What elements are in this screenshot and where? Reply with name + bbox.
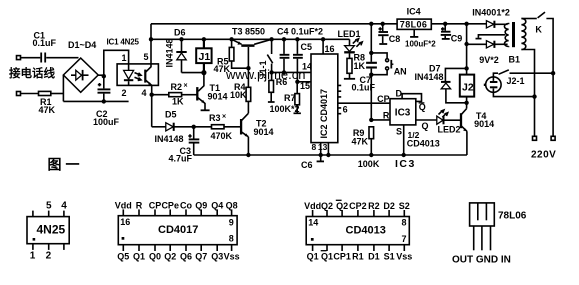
transistor T4 bbox=[460, 113, 462, 128]
svg-text:R: R bbox=[136, 201, 143, 211]
svg-text:100uF*2: 100uF*2 bbox=[405, 39, 436, 48]
svg-text:S1: S1 bbox=[384, 252, 395, 262]
resistor R9 bbox=[369, 118, 373, 122]
svg-text:×: × bbox=[184, 83, 188, 90]
wire bbox=[46, 57, 78, 59]
svg-text:2: 2 bbox=[122, 88, 127, 98]
pin ticks right edge bbox=[338, 85, 341, 113]
svg-text:Q2: Q2 bbox=[336, 201, 348, 211]
svg-text:Q6: Q6 bbox=[180, 252, 192, 262]
svg-text:J2: J2 bbox=[462, 82, 474, 94]
node rail2-left bbox=[149, 37, 153, 41]
svg-text:220V: 220V bbox=[531, 150, 556, 161]
svg-text:5: 5 bbox=[46, 201, 52, 212]
LED inside 4N25 bbox=[128, 64, 130, 71]
IC package CD4013 bbox=[306, 217, 409, 245]
capacitor C3 bbox=[193, 127, 195, 139]
svg-text:Q2: Q2 bbox=[321, 201, 333, 211]
svg-text:IC3: IC3 bbox=[395, 108, 411, 119]
capacitor C2 bbox=[103, 76, 105, 88]
svg-text:8: 8 bbox=[312, 142, 317, 152]
svg-text:7: 7 bbox=[401, 234, 406, 244]
svg-text:IC3: IC3 bbox=[395, 158, 416, 170]
svg-text:图一: 图一 bbox=[48, 157, 84, 173]
svg-text:9014: 9014 bbox=[208, 92, 228, 102]
svg-text:C9: C9 bbox=[451, 34, 463, 44]
buzzer HTD bbox=[486, 77, 501, 92]
diode IN4001 lower bbox=[467, 43, 487, 45]
svg-text:Vdd: Vdd bbox=[115, 201, 132, 211]
svg-text:1K: 1K bbox=[354, 61, 366, 71]
svg-text:78L06: 78L06 bbox=[498, 211, 527, 222]
svg-text:4N25: 4N25 bbox=[37, 222, 66, 236]
svg-text:100K: 100K bbox=[358, 159, 380, 169]
svg-text:R6: R6 bbox=[276, 77, 288, 87]
svg-text:8: 8 bbox=[401, 218, 406, 228]
IC U-IC2 CD4017 bbox=[311, 54, 338, 143]
wire S to ground bbox=[403, 125, 405, 155]
svg-text:C5: C5 bbox=[301, 42, 313, 52]
resistor R7 bbox=[296, 82, 298, 94]
svg-text:Vdd: Vdd bbox=[304, 201, 321, 211]
svg-text:16: 16 bbox=[120, 217, 130, 227]
svg-text:Q2: Q2 bbox=[164, 252, 176, 262]
svg-text:R1: R1 bbox=[352, 252, 364, 262]
svg-text:100uF: 100uF bbox=[93, 117, 120, 127]
svg-text:CP: CP bbox=[149, 201, 162, 211]
pin 8 and 13 stubs bbox=[320, 143, 322, 155]
resistor R8 bbox=[349, 53, 351, 58]
LED2 bbox=[437, 116, 443, 124]
svg-text:J2-1: J2-1 bbox=[507, 76, 525, 86]
svg-text:C4 0.1uF*2: C4 0.1uF*2 bbox=[277, 27, 323, 37]
svg-text:AN: AN bbox=[394, 67, 407, 77]
svg-text:Q9: Q9 bbox=[195, 201, 207, 211]
svg-text:B1: B1 bbox=[509, 55, 521, 65]
svg-text:Q: Q bbox=[422, 121, 429, 131]
svg-text:J1: J1 bbox=[199, 51, 211, 63]
svg-text:LED1: LED1 bbox=[338, 29, 361, 39]
svg-text:4: 4 bbox=[61, 201, 67, 212]
transformer B1 primary winding bbox=[504, 24, 508, 47]
relay contact K bbox=[521, 18, 536, 20]
svg-text:Q1: Q1 bbox=[133, 252, 145, 262]
svg-text:5: 5 bbox=[144, 52, 149, 62]
relay coil J2 bbox=[460, 75, 474, 97]
IC package 78L06 TO-92 bbox=[470, 203, 495, 226]
wire D to Qbar loop bbox=[402, 94, 421, 102]
svg-text:47K: 47K bbox=[39, 105, 56, 115]
capacitor C6 ground stub bbox=[320, 155, 322, 161]
wire pin14 line bbox=[272, 71, 311, 73]
svg-text:IN4148: IN4148 bbox=[165, 38, 175, 67]
svg-text:R2: R2 bbox=[368, 201, 380, 211]
svg-text:1: 1 bbox=[122, 53, 127, 63]
wire pin1 route bbox=[104, 50, 129, 76]
IC package CD4017 bbox=[118, 216, 237, 245]
wire Q output bbox=[416, 119, 437, 121]
svg-text:9014: 9014 bbox=[254, 127, 274, 137]
capacitor C1 bbox=[40, 53, 42, 63]
svg-text:CD4013: CD4013 bbox=[346, 224, 386, 236]
svg-text:Q4: Q4 bbox=[211, 201, 223, 211]
svg-text:CPe: CPe bbox=[161, 201, 179, 211]
svg-text:4: 4 bbox=[142, 88, 147, 98]
resistor R6 bbox=[269, 80, 274, 92]
svg-text:CP: CP bbox=[377, 94, 390, 104]
svg-text:R3: R3 bbox=[209, 113, 221, 123]
wire pin6 CP line bbox=[338, 102, 390, 104]
resistor R1 bbox=[39, 91, 51, 95]
svg-text:9V*2: 9V*2 bbox=[479, 55, 499, 65]
wire pin5 vertical bbox=[150, 24, 152, 64]
svg-text:CP1: CP1 bbox=[333, 252, 351, 262]
wire R line bbox=[371, 119, 390, 121]
svg-text:13: 13 bbox=[318, 142, 328, 152]
wire bbox=[21, 93, 39, 95]
svg-text:14: 14 bbox=[308, 218, 318, 228]
wire pin15 line bbox=[297, 81, 311, 83]
wire pin16 bbox=[322, 39, 324, 54]
svg-text:6: 6 bbox=[343, 105, 348, 115]
wire rail1 right part bbox=[431, 23, 486, 25]
wire J1 to T1 collector bbox=[198, 73, 204, 92]
svg-text:Vss: Vss bbox=[396, 252, 412, 262]
svg-text:Q1: Q1 bbox=[307, 252, 319, 262]
svg-text:IC2 CD4017: IC2 CD4017 bbox=[319, 89, 329, 139]
svg-text:D2: D2 bbox=[383, 201, 395, 211]
svg-text:C6: C6 bbox=[301, 160, 313, 170]
wire rail1 top supply bbox=[151, 23, 397, 25]
capacitor C5 bbox=[296, 39, 298, 54]
svg-text:Q5: Q5 bbox=[117, 252, 129, 262]
wire rail2 bbox=[151, 38, 350, 40]
svg-text:78L06: 78L06 bbox=[400, 19, 428, 29]
svg-text:0.1uF: 0.1uF bbox=[33, 38, 57, 48]
resistor R2 bbox=[152, 94, 169, 96]
svg-text:Co: Co bbox=[180, 201, 192, 211]
wire bottom to C2 and pin2 bbox=[63, 100, 128, 102]
svg-text:CD4017: CD4017 bbox=[158, 224, 198, 236]
svg-text:IC4: IC4 bbox=[407, 7, 421, 17]
svg-text:D: D bbox=[396, 88, 403, 98]
terminal 220V left bbox=[533, 136, 537, 140]
capacitor C7 bbox=[370, 24, 372, 62]
node T3 base / R5 bbox=[246, 66, 250, 70]
bridge rectifier D1~D4 bbox=[63, 58, 98, 92]
svg-text:J1-1: J1-1 bbox=[258, 60, 268, 78]
svg-text:CP2: CP2 bbox=[349, 201, 367, 211]
svg-text:10K: 10K bbox=[230, 90, 247, 100]
IC package 4N25 bbox=[27, 217, 69, 244]
svg-text:470K: 470K bbox=[211, 131, 233, 141]
svg-text:1K: 1K bbox=[172, 97, 184, 107]
relay contact J2-1 and buzzer bbox=[493, 73, 498, 77]
svg-text:接电话线: 接电话线 bbox=[9, 66, 55, 80]
svg-text:9: 9 bbox=[229, 218, 234, 228]
node pin14 bbox=[269, 70, 273, 74]
svg-text:S: S bbox=[396, 127, 402, 137]
svg-text:IN4001*2: IN4001*2 bbox=[472, 8, 510, 18]
svg-text:IC1 4N25: IC1 4N25 bbox=[107, 37, 140, 46]
transformer secondary winding bbox=[521, 19, 525, 50]
svg-text:1: 1 bbox=[30, 251, 36, 262]
svg-text:8: 8 bbox=[229, 234, 234, 244]
svg-text:K: K bbox=[535, 25, 542, 35]
svg-text:D1: D1 bbox=[368, 252, 380, 262]
svg-text:LED2: LED2 bbox=[438, 125, 461, 135]
wire pin4 bbox=[151, 85, 153, 126]
right supply column bbox=[464, 22, 468, 26]
light arrows bbox=[135, 73, 142, 81]
wire bbox=[21, 57, 41, 59]
transistor T1 bbox=[196, 87, 198, 100]
svg-text:D1~D4: D1~D4 bbox=[68, 40, 96, 50]
pushbutton AN bbox=[371, 53, 387, 59]
svg-text:Q3: Q3 bbox=[211, 252, 223, 262]
svg-text:R7: R7 bbox=[284, 93, 296, 103]
center tap to ground bbox=[478, 35, 505, 38]
svg-text:Q1: Q1 bbox=[321, 252, 333, 262]
wire D6 to J1 bbox=[182, 72, 204, 74]
svg-text:16: 16 bbox=[325, 44, 335, 54]
resistor R5 bbox=[231, 39, 233, 47]
resistor R3 bbox=[212, 125, 225, 129]
svg-text:D6: D6 bbox=[174, 28, 186, 38]
svg-text:T3 8550: T3 8550 bbox=[232, 27, 265, 37]
transformer core bbox=[512, 22, 515, 47]
svg-text:R2: R2 bbox=[171, 82, 183, 92]
svg-text:0.1uF: 0.1uF bbox=[352, 83, 376, 93]
capacitor C9 bbox=[443, 22, 447, 26]
node A bbox=[102, 74, 106, 78]
relay coil J1 bbox=[203, 39, 205, 48]
ground rail bottom bbox=[194, 154, 467, 156]
wire bridge left corner down bbox=[62, 75, 64, 101]
IC U-IC3 CD4013 half bbox=[390, 99, 416, 125]
relay contact J1-1 bbox=[271, 39, 273, 54]
svg-text:15: 15 bbox=[300, 81, 310, 91]
svg-text:IN4148: IN4148 bbox=[155, 134, 184, 144]
resistor R4 bbox=[247, 101, 249, 113]
terminal 220V right bbox=[551, 136, 555, 140]
terminal input 2 bbox=[17, 92, 21, 96]
svg-text:Q7: Q7 bbox=[195, 252, 207, 262]
wire secondary bottom down bbox=[521, 50, 534, 137]
svg-text:47K: 47K bbox=[352, 137, 369, 147]
svg-text:Q0: Q0 bbox=[149, 252, 161, 262]
terminal input 1 bbox=[17, 56, 21, 60]
svg-text:OUT GND IN: OUT GND IN bbox=[452, 255, 511, 266]
node C3 top bbox=[192, 125, 196, 129]
svg-text:D5: D5 bbox=[165, 110, 177, 120]
svg-text:×: × bbox=[222, 114, 226, 121]
svg-text:Q8: Q8 bbox=[226, 201, 238, 211]
capacitor C4 bbox=[283, 39, 285, 54]
transistor T2 bbox=[240, 119, 242, 135]
svg-text:IN4148: IN4148 bbox=[415, 72, 444, 82]
capacitor C8 bbox=[381, 22, 385, 26]
svg-text:2: 2 bbox=[46, 251, 52, 262]
wire bridge right to node bbox=[98, 74, 104, 76]
svg-text:R: R bbox=[383, 111, 390, 121]
svg-text:100K*2: 100K*2 bbox=[270, 104, 300, 114]
svg-text:CD4013: CD4013 bbox=[407, 139, 440, 149]
svg-text:Vss: Vss bbox=[224, 252, 240, 262]
phototransistor inside 4N25 bbox=[144, 70, 146, 83]
svg-text:9014: 9014 bbox=[474, 119, 494, 129]
svg-text:S2: S2 bbox=[399, 201, 410, 211]
svg-text:C8: C8 bbox=[389, 34, 401, 44]
svg-text:47K: 47K bbox=[214, 64, 231, 74]
svg-text:4.7uF: 4.7uF bbox=[169, 154, 193, 164]
